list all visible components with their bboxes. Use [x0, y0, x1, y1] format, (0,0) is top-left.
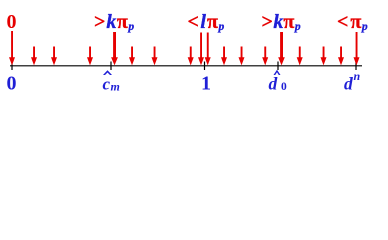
svg-text:0: 0	[7, 73, 17, 95]
label c-hat_m	[103, 70, 120, 93]
arrow long thick 281.5	[278, 32, 285, 65]
tick d-hat	[277, 62, 279, 71]
svg-text:1: 1	[201, 73, 211, 95]
arrow short 224	[221, 47, 227, 66]
svg-text:c: c	[103, 75, 111, 94]
svg-text:m: m	[111, 80, 120, 94]
svg-text:>kπp: >kπp	[262, 11, 301, 33]
arrow short 241.5	[239, 47, 245, 66]
svg-text:0: 0	[7, 11, 17, 33]
arrow short 341	[338, 47, 344, 66]
arrow long double-left 201	[198, 33, 204, 66]
label d-hat_0	[269, 70, 288, 94]
arrow short 190.7	[188, 47, 194, 66]
svg-text:d: d	[269, 74, 278, 94]
arrow short 323.5	[321, 47, 327, 66]
arrow long 356.5	[354, 32, 360, 65]
arrow short 154.5	[152, 47, 158, 66]
arrow long thick 114.5	[111, 32, 118, 65]
arrow long double-right 207.7	[205, 33, 211, 66]
tick d^n	[355, 62, 357, 71]
arrow short 34	[31, 47, 37, 66]
label d^n	[344, 69, 361, 94]
svg-text:>kπp: >kπp	[94, 11, 134, 33]
arrow short 299.7	[297, 47, 303, 66]
svg-text:<lπp: <lπp	[188, 11, 225, 33]
arrow short 265.2	[262, 47, 268, 66]
svg-text:n: n	[354, 69, 361, 83]
arrow long at 0	[9, 31, 15, 65]
arrow short 54	[51, 47, 57, 66]
tick c-hat	[110, 62, 112, 71]
tick 1	[204, 62, 206, 71]
arrow short 90	[87, 47, 93, 66]
tick 0	[11, 62, 13, 71]
number line	[10, 65, 362, 67]
svg-text:0: 0	[281, 81, 287, 93]
arrow short 132	[129, 47, 135, 66]
svg-text:<πp: <πp	[337, 11, 368, 33]
svg-text:d: d	[344, 74, 353, 94]
